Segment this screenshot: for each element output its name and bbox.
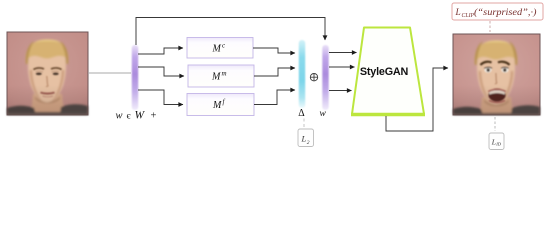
shoulders / dark clothing xyxy=(453,107,483,115)
neck and chest xyxy=(480,97,513,115)
plus operator xyxy=(310,74,317,81)
latent bar w output xyxy=(322,45,328,110)
wire StyleGAN to output image xyxy=(386,68,448,131)
svg-text:w: w xyxy=(320,109,327,119)
input image I (left face photo) xyxy=(7,32,88,115)
wire w bar to StyleGAN coarse xyxy=(329,52,357,54)
svg-text:CLIP: CLIP xyxy=(462,13,475,19)
svg-text:Δ: Δ xyxy=(298,108,305,119)
svg-text:2: 2 xyxy=(307,140,310,146)
CLIP loss box xyxy=(452,3,543,20)
hair blonde pixie xyxy=(475,41,518,66)
svg-text:L: L xyxy=(301,134,307,144)
svg-text:M: M xyxy=(211,72,221,83)
wire w bar to StyleGAN fine xyxy=(329,90,352,92)
svg-text:w: w xyxy=(116,111,123,122)
cheeks shading xyxy=(479,71,491,102)
eyebrows xyxy=(34,68,45,70)
svg-text:ID: ID xyxy=(495,142,501,147)
eyes xyxy=(36,73,42,76)
StyleGAN generator trapezoid xyxy=(351,28,425,115)
wire bar to Mm xyxy=(138,67,184,76)
wire Mf to delta xyxy=(254,90,295,105)
shoulders / dark clothing xyxy=(7,106,36,115)
wide eyes xyxy=(484,67,491,72)
svg-text:L: L xyxy=(491,137,496,146)
head xyxy=(28,41,66,103)
svg-text:L: L xyxy=(455,8,461,18)
svg-text:W: W xyxy=(135,110,146,122)
svg-text:є: є xyxy=(127,112,131,122)
wire bar to Mc xyxy=(138,48,183,54)
dashed link output image to ID loss xyxy=(494,117,496,131)
svg-text:StyleGAN: StyleGAN xyxy=(360,66,409,78)
head xyxy=(477,41,515,105)
svg-text:M: M xyxy=(212,100,222,111)
svg-text:+: + xyxy=(151,111,157,122)
svg-text:m: m xyxy=(222,70,227,78)
wire Mc to delta xyxy=(253,48,295,53)
wire w bar to StyleGAN medium xyxy=(329,66,355,68)
mouth xyxy=(41,93,55,94)
svg-text:(“surprised”,·): (“surprised”,·) xyxy=(474,7,537,17)
dashed link delta to L2 xyxy=(303,119,305,128)
loss box L2 xyxy=(298,129,314,147)
wire bar to Mf xyxy=(138,90,183,105)
raised eyebrows xyxy=(481,62,492,65)
wire Mm to delta xyxy=(254,68,295,76)
nose xyxy=(46,76,48,86)
output image (surprised face photo) xyxy=(453,34,540,115)
latent code bar w in W+ xyxy=(132,45,138,110)
neck and chest xyxy=(31,94,64,115)
mapper Mc xyxy=(187,38,253,59)
open mouth xyxy=(488,88,505,101)
loss box LID xyxy=(489,133,504,150)
dashed link CLIP loss to output image xyxy=(489,21,491,32)
label w in W+ xyxy=(116,110,157,122)
nose xyxy=(495,73,497,84)
wire bypass w to plus xyxy=(136,18,325,46)
cheeks shading xyxy=(30,70,42,101)
mapper Mf xyxy=(187,94,254,116)
wire image-to-latent xyxy=(88,72,131,74)
mapper Mm xyxy=(188,65,254,87)
hair blonde pixie xyxy=(26,40,69,65)
svg-text:M: M xyxy=(212,44,222,55)
delta bar xyxy=(299,40,305,108)
